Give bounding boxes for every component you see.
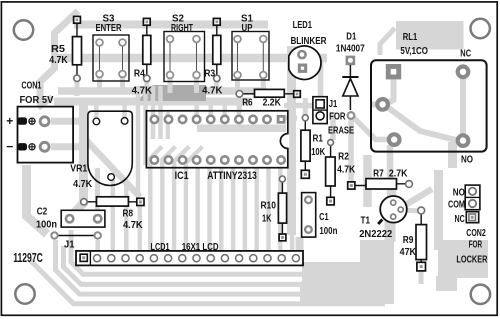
svg-text:100n: 100n: [319, 225, 337, 237]
wire: [235, 75, 240, 93]
svg-text:NC: NC: [460, 48, 471, 60]
wire: [111, 180, 115, 250]
svg-text:NO: NO: [461, 154, 473, 166]
svg-text:FOR 5V: FOR 5V: [19, 94, 53, 106]
wire: [120, 74, 125, 93]
resistor R6: [236, 89, 300, 108]
svg-text:1K: 1K: [262, 213, 272, 225]
mounting hole: [471, 285, 490, 304]
svg-text:R2: R2: [338, 150, 349, 162]
svg-text:2.2K: 2.2K: [263, 96, 282, 108]
svg-text:LOCKER: LOCKER: [456, 254, 487, 266]
wire: [168, 75, 173, 93]
wire: [51, 118, 84, 125]
capacitor C2: [36, 206, 105, 231]
wire: [74, 21, 268, 29]
resistor R9: [400, 207, 427, 271]
svg-text:FOR: FOR: [329, 110, 346, 122]
wire: [460, 72, 466, 140]
svg-text:R8: R8: [123, 208, 134, 220]
svg-text:CON2: CON2: [466, 227, 486, 239]
svg-text:ERASE: ERASE: [328, 125, 354, 137]
wire: [158, 86, 163, 139]
diode D1: [336, 31, 365, 119]
svg-text:1N4007: 1N4007: [336, 43, 365, 55]
transistor T1: [359, 196, 407, 240]
svg-text:R6: R6: [242, 96, 253, 108]
wire: [58, 87, 266, 95]
wire: [352, 116, 390, 140]
wire: [194, 75, 199, 93]
svg-text:R3: R3: [204, 67, 215, 79]
wire: [40, 11, 78, 104]
svg-text:100n: 100n: [36, 219, 57, 231]
mounting hole: [14, 20, 33, 39]
wire: [214, 80, 219, 93]
wire: [261, 76, 266, 93]
wire: [144, 80, 149, 93]
svg-text:47K: 47K: [400, 246, 417, 258]
wire: [186, 147, 203, 251]
wire: [318, 57, 324, 97]
wire: [150, 147, 162, 251]
svg-text:UP: UP: [242, 23, 253, 34]
wire: [162, 147, 175, 251]
svg-text:11297C: 11297C: [13, 250, 43, 265]
wire: [436, 240, 488, 291]
svg-text:FOR: FOR: [469, 238, 483, 250]
connector CON2: [448, 185, 488, 265]
svg-text:D1: D1: [346, 31, 356, 43]
wire: [75, 80, 80, 96]
svg-text:VR1: VR1: [70, 162, 87, 174]
svg-text:R5: R5: [51, 43, 65, 55]
svg-text:4.7K: 4.7K: [202, 85, 223, 97]
wire: [27, 165, 48, 234]
wire: [197, 124, 286, 132]
svg-text:16X1 LCD: 16X1 LCD: [182, 241, 219, 253]
wire: [330, 112, 336, 140]
wire: [71, 230, 306, 274]
IC socket IC1 ATTINY2313: [146, 111, 289, 182]
LCD connector LCD1: [76, 241, 303, 265]
svg-text:C2: C2: [37, 206, 48, 218]
wire: [64, 246, 395, 284]
mounting hole: [471, 19, 490, 38]
relay RL1: [371, 31, 487, 166]
svg-text:R9: R9: [403, 234, 414, 246]
wire: [434, 170, 443, 250]
svg-text:ENTER: ENTER: [96, 23, 123, 34]
board code 11297C: [13, 250, 43, 265]
svg-text:IC1: IC1: [175, 170, 189, 182]
resistor R10: [260, 176, 286, 241]
wire: [51, 143, 84, 150]
svg-text:10K: 10K: [311, 146, 325, 158]
wire: [84, 138, 140, 197]
wire: [387, 145, 394, 225]
wire: [54, 98, 250, 106]
wire: [96, 103, 124, 117]
wire: [396, 21, 464, 50]
wire: [287, 46, 296, 235]
preset VR1: [70, 111, 132, 190]
wire: [300, 284, 394, 304]
jumper J1 (bottom): [51, 232, 101, 250]
wire: [95, 240, 100, 250]
wire: [198, 168, 292, 250]
svg-text:ATTINY2313: ATTINY2313: [207, 170, 257, 182]
wire: [143, 86, 148, 165]
svg-text:R10: R10: [260, 200, 276, 212]
svg-text:−: −: [6, 140, 13, 154]
wire: [285, 116, 297, 121]
svg-text:RL1: RL1: [403, 31, 418, 43]
capacitor C1: [302, 193, 338, 238]
svg-text:R7: R7: [373, 167, 384, 179]
wire: [138, 206, 142, 250]
svg-text:BLINKER: BLINKER: [290, 35, 326, 47]
wire: [284, 103, 313, 109]
resistor R3: [202, 18, 223, 96]
wire: [296, 237, 304, 266]
wire: [72, 100, 84, 215]
resistor R1: [301, 115, 326, 179]
resistor R7: [348, 167, 413, 189]
resistor R5: [49, 16, 81, 81]
svg-text:R1: R1: [312, 133, 323, 145]
wire: [383, 104, 456, 140]
svg-text:4.7K: 4.7K: [123, 219, 143, 231]
wire: [139, 85, 206, 101]
wire: [166, 112, 170, 139]
wire: [360, 240, 394, 297]
svg-text:RIGHT: RIGHT: [171, 23, 193, 34]
svg-text:LCD1: LCD1: [151, 241, 170, 253]
wire: [38, 97, 52, 108]
wire: [385, 221, 396, 242]
svg-text:5V,1CO: 5V,1CO: [400, 45, 428, 57]
resistor R8: [81, 197, 144, 231]
jumper J1 (erase): [313, 97, 354, 137]
switch S3: [93, 13, 129, 81]
wire: [302, 262, 360, 284]
svg-text:COM: COM: [448, 199, 465, 211]
svg-text:CON1: CON1: [21, 80, 41, 92]
svg-text:4.7K: 4.7K: [337, 163, 355, 175]
svg-text:R4: R4: [134, 67, 145, 79]
svg-text:+: +: [6, 114, 13, 128]
wire: [237, 98, 242, 112]
svg-text:J1: J1: [329, 98, 338, 110]
connector CON1: [6, 80, 73, 163]
svg-text:C1: C1: [319, 211, 329, 223]
wire: [136, 86, 141, 196]
svg-text:2.7K: 2.7K: [389, 167, 408, 179]
wire: [151, 86, 156, 139]
wire: [402, 189, 432, 207]
wire: [448, 142, 457, 168]
wire: [197, 104, 239, 116]
wire: [372, 102, 381, 108]
switch S2: [164, 13, 205, 81]
wire: [419, 271, 424, 284]
svg-text:2N2222: 2N2222: [359, 228, 392, 240]
svg-text:J1: J1: [64, 239, 75, 251]
wire: [97, 74, 102, 93]
wire: [380, 28, 395, 55]
wire: [56, 54, 327, 63]
resistor R2: [326, 140, 356, 205]
mounting hole: [15, 284, 34, 303]
wire: [303, 98, 308, 115]
wire: [348, 118, 354, 182]
svg-text:4.7K: 4.7K: [73, 178, 92, 190]
wire: [363, 155, 372, 207]
svg-text:NO: NO: [453, 186, 465, 198]
wire: [124, 182, 128, 250]
wire: [56, 240, 395, 294]
svg-text:4.7K: 4.7K: [49, 54, 68, 66]
svg-text:LED1: LED1: [293, 19, 313, 31]
svg-text:T1: T1: [361, 214, 371, 226]
wire: [30, 260, 385, 304]
wire: [174, 147, 189, 251]
wire: [400, 210, 421, 211]
LED LED1: [289, 19, 327, 80]
svg-text:NC: NC: [454, 213, 465, 225]
svg-text:4.7K: 4.7K: [132, 85, 153, 97]
wire: [383, 79, 394, 105]
resistor R4: [132, 18, 153, 96]
switch S1: [232, 13, 269, 80]
wire: [392, 189, 397, 196]
wire: [95, 168, 100, 212]
